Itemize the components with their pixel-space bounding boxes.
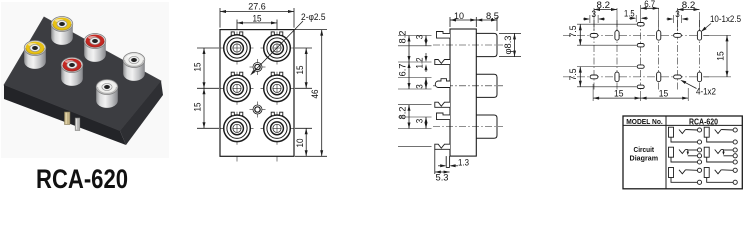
circuit diagram: switched jack symbol S3: [669, 147, 702, 164]
spec table frame: [623, 116, 742, 189]
dimension 15 (column pitch): [237, 14, 277, 30]
RCA jack (white, back row): [123, 53, 145, 81]
svg-text:3: 3: [415, 84, 425, 89]
centerline ticks below housing: [237, 156, 277, 161]
pcb pad 1x2.5 (middle column #2): [637, 44, 644, 47]
dimension 10 (body depth): [450, 11, 476, 27]
extension line for middle pad #1: [577, 23, 637, 25]
front view: mounting hole 1 (phi2.5): [250, 59, 266, 75]
dimension 3 (pcb left pad): [583, 9, 605, 23]
dimension 8.5 (barrel length): [476, 11, 499, 31]
dimension 3 (pcb right pad): [667, 9, 689, 23]
front view: jack J4: [261, 72, 294, 105]
dimension 7.5 (lower left): [568, 67, 582, 87]
pcb pad 1x2.5 (row 1, col L2): [615, 31, 619, 41]
svg-text:3: 3: [415, 119, 425, 124]
svg-text:6.7: 6.7: [644, 0, 655, 9]
RCA jack (red, front row): [61, 58, 83, 86]
svg-text:2-φ2.5: 2-φ2.5: [301, 12, 326, 22]
svg-text:6.7: 6.7: [398, 64, 408, 77]
label 4-1x2 with leader: [680, 80, 716, 97]
dimension 7.5 (upper left): [568, 24, 582, 45]
pcb layout: column centerline L2: [616, 20, 618, 91]
dimension 1.2: [415, 53, 428, 72]
front view: jack J3: [221, 72, 254, 105]
svg-text:RCA-620: RCA-620: [36, 164, 128, 190]
svg-text:RCA-620: RCA-620: [689, 116, 718, 126]
RCA jack (yellow, front row): [24, 41, 46, 69]
pcb layout: column centerline L1: [593, 20, 595, 91]
extension ticks for side-view dimensions: [398, 36, 432, 147]
side view: mounting foot: [446, 156, 449, 167]
pcb pad 1x2.5 (row 2, col R2): [697, 72, 701, 82]
pcb layout: row 1 centerline: [563, 34, 709, 36]
svg-text:27.6: 27.6: [248, 1, 266, 11]
side view: solder lug (row 1 lower): [435, 60, 450, 65]
dimension 10 (bottom row to edge): [295, 128, 312, 156]
circuit diagram: jack symbol S1: [669, 127, 702, 144]
pcb layout: column centerline R0: [658, 20, 660, 91]
svg-text:MODEL No.: MODEL No.: [626, 117, 663, 126]
side view: solder lug (row 2 upper, with hole): [435, 79, 450, 88]
svg-text:10: 10: [454, 11, 464, 21]
PCB pin 1: [65, 112, 70, 125]
side view: solder lug (row 3 lower): [435, 144, 450, 149]
pcb pad 1x2.5 (row 1, col R0): [657, 31, 661, 41]
svg-text:15: 15: [716, 51, 726, 61]
pcb layout: column centerline R2: [699, 20, 701, 91]
side view: jack barrel 2: [476, 74, 497, 97]
svg-text:15: 15: [193, 103, 203, 112]
svg-text:10-1x2.5: 10-1x2.5: [710, 14, 741, 24]
RCA jack (red, back row): [84, 34, 106, 62]
dimension 3 (row2 lug): [415, 78, 428, 90]
svg-text:46: 46: [310, 90, 320, 99]
svg-text:15: 15: [193, 63, 203, 72]
table label Circuit Diagram: [630, 145, 659, 162]
dimension 27.6 (overall width): [220, 1, 294, 27]
svg-text:5.3: 5.3: [436, 173, 449, 183]
label 10-1x2.5 with leader: [701, 14, 741, 32]
svg-text:10: 10: [295, 139, 305, 148]
connector block right face: [120, 81, 163, 145]
dimension 46 (overall height): [295, 30, 327, 157]
svg-text:8.5: 8.5: [486, 11, 499, 21]
table header MODEL No.: [626, 117, 663, 126]
pcb pad 1x2.5 (row 1, col R2): [697, 31, 701, 41]
svg-text:15: 15: [614, 88, 624, 98]
svg-text:15: 15: [659, 88, 669, 98]
photo background: [1, 2, 169, 158]
connector block front-left face: [4, 85, 126, 145]
dimension 3 (row3 lug): [415, 117, 428, 129]
front view: jack J2: [261, 32, 294, 65]
RCA jack (yellow, back row): [51, 17, 73, 45]
dimension phi8.3 (barrel diameter): [499, 33, 521, 56]
dimension 15 (pcb rows, right): [704, 35, 731, 77]
centerline of barrel 1: [433, 44, 503, 46]
centerline of barrel 2: [433, 85, 503, 87]
svg-text:7.5: 7.5: [568, 69, 578, 81]
side view: solder lug (row 2 lower): [435, 102, 450, 107]
side view: jack barrel 1: [476, 33, 497, 56]
svg-text:1.2: 1.2: [415, 58, 425, 69]
RCA jack (white, front row): [96, 80, 118, 108]
dimension 1.3 (foot width): [438, 158, 469, 168]
pcb pad 1x2.5 (row 2, col R0): [657, 72, 661, 82]
side view: housing body: [450, 29, 476, 156]
svg-text:Diagram: Diagram: [630, 154, 659, 163]
svg-text:3: 3: [675, 9, 680, 19]
circuit diagram: jack symbol S2: [704, 127, 737, 144]
svg-text:15: 15: [253, 14, 262, 24]
svg-text:8.2: 8.2: [597, 0, 611, 10]
svg-text:1.5: 1.5: [624, 9, 635, 19]
front view: jack J6: [261, 112, 294, 145]
extension line for middle pad #4: [577, 86, 637, 88]
pcb pad 1x2 (row 2, col L1): [590, 75, 598, 79]
pcb pad 1x2.5 (middle column #3): [637, 65, 644, 68]
pcb layout: column centerline M: [640, 20, 642, 91]
dimension 15 (row pitch, right): [295, 48, 312, 88]
dimension 15 (pcb columns, bottom left): [593, 84, 641, 101]
pcb layout: column centerline R1: [677, 20, 679, 91]
svg-text:φ8.3: φ8.3: [503, 36, 513, 55]
extension line for middle pad #3: [577, 66, 637, 68]
extension line for middle pad #2: [577, 44, 637, 46]
PCB pin 2: [75, 118, 80, 131]
dimension 8.2 (upper left): [398, 31, 411, 63]
svg-text:7.5: 7.5: [568, 26, 578, 38]
dimension 15 (row pitch, lower left): [193, 88, 220, 128]
pcb pad 1x2 (row 2, col R1): [674, 75, 682, 79]
svg-text:1.3: 1.3: [458, 158, 469, 168]
dimension 8.2 (pcb right): [678, 0, 700, 11]
front view: jack J5: [221, 112, 254, 145]
dimension 15 (row pitch, upper left): [193, 48, 220, 88]
pcb pad 1x2.5 (row 2, col L2): [615, 72, 619, 82]
circuit diagram: jack symbol S6: [704, 168, 737, 185]
connector block body (top face): [4, 17, 161, 131]
front view: mounting hole 2 (phi2.5): [250, 102, 266, 118]
svg-text:3: 3: [415, 35, 425, 40]
side view: solder lug (row 1 upper): [437, 32, 451, 39]
model name caption RCA-620: [36, 164, 128, 194]
pcb pad 1x2.5 (middle column #4): [637, 85, 644, 88]
dimension 1.5 (pcb middle): [624, 9, 648, 23]
table header RCA-620: [689, 116, 718, 126]
svg-text:8.2: 8.2: [398, 107, 408, 120]
front view: housing outline: [220, 30, 294, 157]
svg-text:15: 15: [295, 66, 305, 75]
dimension 8.2 (lower left): [398, 105, 411, 129]
circuit diagram: switched jack symbol S4: [704, 147, 737, 164]
centerline of barrel 3: [433, 126, 503, 128]
pcb pad 1x2 (row 1, col L1): [590, 34, 598, 38]
dimension 15 (pcb columns, bottom right): [641, 88, 689, 101]
svg-text:4-1x2: 4-1x2: [696, 87, 716, 97]
pcb layout: row 2 centerline: [563, 76, 709, 78]
label 2-phi2.5 with leader: [250, 12, 325, 76]
side view: jack barrel 3: [476, 115, 497, 138]
svg-text:8.2: 8.2: [398, 31, 408, 44]
circuit diagram: jack symbol S5: [669, 168, 702, 185]
dimension 5.3: [435, 149, 450, 182]
side view: solder lug (row 3 upper): [437, 113, 451, 120]
pcb pad 1x2 (row 1, col R1): [674, 34, 682, 38]
dimension 6.7 (middle left): [398, 62, 411, 89]
svg-text:8.2: 8.2: [682, 0, 696, 10]
pcb pad 1x2.5 (middle column #1): [637, 23, 644, 26]
svg-text:3: 3: [592, 9, 597, 19]
extension lines above pads: [594, 5, 700, 31]
dimension 8.2 (pcb left): [594, 0, 617, 11]
dimension 6.7 (pcb middle): [641, 0, 659, 10]
dimension 3 (row1 lug): [415, 35, 428, 46]
front view: jack J1: [221, 32, 254, 65]
